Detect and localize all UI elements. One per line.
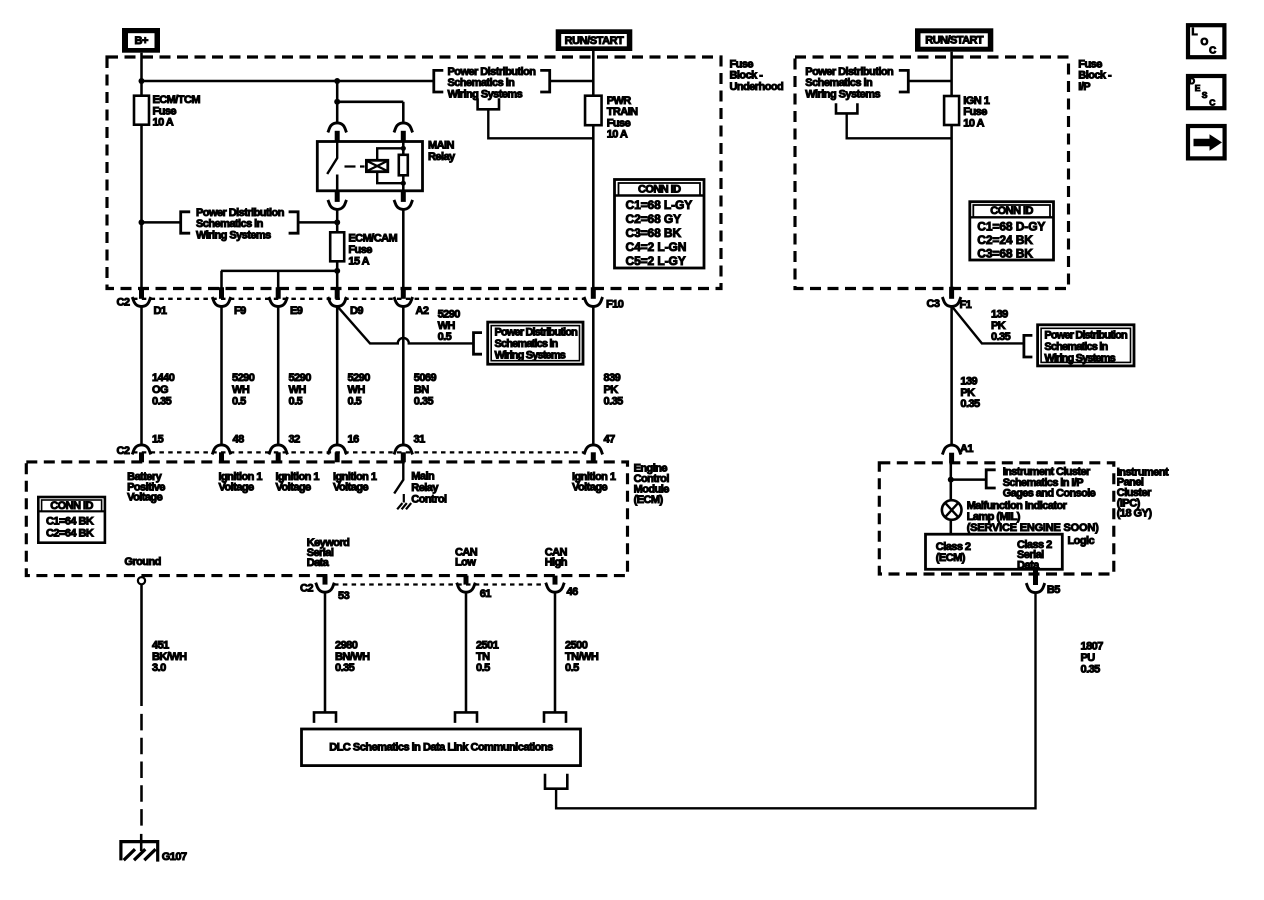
lamp MIL indicator	[942, 500, 962, 520]
wire into ground symbol	[140, 834, 143, 851]
svg-text:(SERVICE ENGINE SOON): (SERVICE ENGINE SOON)	[967, 522, 1099, 534]
svg-text:A1: A1	[960, 443, 973, 455]
wire relay feed down	[336, 81, 339, 123]
svg-text:Wiring Systems: Wiring Systems	[495, 349, 566, 361]
pin fuse block terminal D1	[139, 287, 144, 299]
svg-text:A2: A2	[416, 305, 429, 317]
svg-text:L: L	[1192, 27, 1198, 38]
svg-text:Data: Data	[307, 557, 330, 569]
svg-text:DLC Schematics in Data Link Co: DLC Schematics in Data Link Communicatio…	[329, 742, 553, 754]
svg-text:Power Distribution: Power Distribution	[1044, 330, 1128, 342]
connector D1 (female)	[132, 297, 151, 307]
resistor relay suppression	[399, 155, 408, 176]
connector ECM pin 61 (female)	[457, 583, 476, 593]
svg-text:Control: Control	[411, 493, 447, 505]
connector relay 86 (female)	[394, 200, 413, 210]
svg-text:Power Distribution: Power Distribution	[448, 66, 537, 78]
svg-text:B+: B+	[135, 35, 148, 47]
svg-text:5069: 5069	[414, 372, 437, 384]
svg-text:O: O	[1201, 37, 1209, 48]
connector DLC output (male half)	[545, 774, 567, 789]
svg-text:3.0: 3.0	[152, 662, 166, 674]
fuse ECM/TCM 10A	[134, 94, 200, 129]
wire u-bracket to main	[847, 113, 952, 138]
wire coil frame	[377, 148, 403, 183]
connector ECM pin 48 (female)	[212, 445, 231, 455]
pin fuse block terminal A2	[401, 287, 406, 299]
table CONN ID ECM	[38, 497, 105, 543]
svg-text:Schematics in: Schematics in	[805, 77, 873, 89]
svg-text:(ECM): (ECM)	[634, 494, 664, 506]
svg-text:Fuse: Fuse	[348, 244, 372, 256]
node junction to power distribution reference	[139, 219, 145, 225]
icon DESC legend	[1188, 76, 1224, 108]
svg-text:WH: WH	[232, 384, 250, 396]
svg-text:Voltage: Voltage	[127, 492, 162, 504]
pin ECM terminal 48	[219, 452, 224, 462]
wire harness vertical	[402, 307, 405, 446]
reference Power Distribution Schematics (boxed, IPC branch)	[1024, 325, 1134, 366]
svg-text:5290: 5290	[232, 372, 255, 384]
reference Power Distribution Schematics (I/P)	[805, 66, 908, 101]
wire harness vertical	[336, 307, 339, 446]
svg-text:BN: BN	[414, 384, 429, 396]
node junction IPC reference	[948, 477, 954, 483]
svg-text:Wiring Systems: Wiring Systems	[805, 89, 880, 101]
svg-text:CONN ID: CONN ID	[50, 500, 93, 512]
fuse block underhood (dashed)	[107, 57, 721, 289]
svg-text:C4=2 L-GN: C4=2 L-GN	[626, 240, 687, 254]
svg-text:0.5: 0.5	[348, 395, 362, 407]
svg-text:G107: G107	[162, 851, 187, 863]
svg-text:451: 451	[152, 639, 169, 651]
svg-text:PU: PU	[1081, 652, 1096, 664]
svg-text:ECM/CAM: ECM/CAM	[348, 233, 397, 245]
svg-text:Logic: Logic	[1068, 535, 1095, 547]
svg-text:PK: PK	[604, 384, 619, 396]
pin fuse block terminal F10	[591, 287, 596, 299]
svg-text:C2=68 GY: C2=68 GY	[626, 212, 682, 226]
svg-text:D1: D1	[154, 305, 167, 317]
svg-text:Fuse: Fuse	[607, 117, 631, 129]
wire B+ vertical feed	[140, 53, 143, 96]
wire ECM/TCM fuse to connector D1	[140, 125, 143, 288]
svg-text:ECM/TCM: ECM/TCM	[153, 94, 201, 106]
connector ECM pin 47 (female)	[584, 445, 603, 455]
wire ignition branch horizontal	[221, 270, 337, 273]
svg-text:0.5: 0.5	[232, 395, 246, 407]
transistor driver main relay control (switch)	[394, 462, 403, 493]
svg-text:Fuse: Fuse	[153, 105, 177, 117]
svg-text:Low: Low	[455, 557, 476, 569]
svg-text:(ECM): (ECM)	[936, 552, 966, 564]
reference Power Distribution Schematics (top mid)	[434, 66, 550, 101]
svg-text:5290: 5290	[289, 372, 312, 384]
reference additional (u-bracket)	[478, 98, 499, 109]
svg-text:BK/WH: BK/WH	[152, 651, 187, 663]
wire fuse to D9	[336, 261, 339, 288]
svg-text:C: C	[1209, 46, 1216, 57]
table CONN ID I/P	[970, 202, 1054, 261]
wire ground 451 solid part	[140, 584, 143, 706]
node junction ignition branch	[334, 268, 340, 274]
svg-text:Underhood: Underhood	[730, 81, 784, 93]
svg-text:S: S	[1202, 90, 1208, 100]
connector C3/F1 (female)	[942, 297, 961, 307]
wire harness vertical	[140, 307, 143, 446]
svg-text:PK: PK	[960, 387, 975, 399]
pin ECM terminal 15	[139, 452, 144, 462]
svg-text:(18 GY): (18 GY)	[1117, 508, 1153, 520]
svg-text:0.35: 0.35	[991, 331, 1011, 343]
svg-text:F9: F9	[234, 305, 246, 317]
node RUN/START ignition feed (underhood)	[556, 29, 633, 51]
reference Power Distribution Schematics (left)	[181, 207, 298, 242]
icon arrow legend	[1188, 126, 1225, 158]
pin relay terminal 86	[401, 191, 406, 202]
wire class 2 serial data run	[556, 593, 1035, 809]
wire harness vertical	[220, 307, 223, 446]
svg-text:C3=68 BK: C3=68 BK	[626, 226, 682, 240]
svg-text:16: 16	[348, 433, 360, 445]
connector DLC (male half)	[544, 712, 566, 723]
pin fuse block I/P terminal F1	[949, 287, 954, 299]
pin relay terminal	[335, 131, 340, 142]
svg-text:WH: WH	[438, 320, 456, 332]
svg-text:839: 839	[604, 372, 621, 384]
wire reference to relay branch	[298, 221, 337, 224]
connector IPC pin B5 (female)	[1026, 583, 1045, 593]
connector ECM pin 32 (female)	[269, 445, 288, 455]
svg-text:31: 31	[414, 433, 426, 445]
wire ECM connector row (dotted)	[133, 451, 584, 453]
connector DLC (male half)	[455, 712, 477, 723]
svg-text:BN/WH: BN/WH	[335, 651, 370, 663]
node B+ battery terminal box	[122, 28, 160, 53]
connector ECM pin 46 (female)	[546, 583, 565, 593]
icon LOC legend	[1188, 25, 1224, 57]
svg-text:C1=68 L-GY: C1=68 L-GY	[626, 198, 693, 212]
wire B+ horizontal bus	[142, 80, 434, 83]
svg-text:0.5: 0.5	[476, 662, 490, 674]
svg-text:Wiring Systems: Wiring Systems	[448, 89, 523, 101]
pin fuse block terminal F9	[219, 287, 224, 299]
svg-text:C3: C3	[927, 298, 940, 310]
table CONN ID underhood	[615, 180, 705, 269]
wire IGN1 fuse to C3/F1	[950, 125, 953, 288]
svg-text:0.35: 0.35	[152, 395, 172, 407]
connector DLC (male half)	[314, 712, 336, 723]
svg-text:Relay: Relay	[411, 482, 439, 494]
svg-text:RUN/START: RUN/START	[925, 35, 984, 47]
wire relay right leg	[402, 142, 405, 191]
wire A1 down to MIL	[950, 463, 953, 501]
svg-text:0.35: 0.35	[335, 662, 355, 674]
svg-text:C2: C2	[117, 445, 130, 457]
wire C3/F1 down to A1	[950, 306, 953, 445]
svg-text:0.35: 0.35	[604, 395, 624, 407]
ECM U1 Engine Control Module (dashed)	[26, 462, 627, 576]
wire connector row (dotted)	[133, 298, 584, 300]
pin ECM terminal 46	[553, 576, 558, 585]
svg-text:TRAIN: TRAIN	[607, 106, 638, 118]
svg-text:C2: C2	[300, 583, 313, 595]
svg-text:Schematics in: Schematics in	[1044, 341, 1108, 353]
wire branch to F9	[220, 271, 223, 288]
svg-text:CONN ID: CONN ID	[638, 183, 681, 195]
wire relay 87 down	[336, 209, 339, 232]
svg-text:MAIN: MAIN	[428, 140, 455, 152]
svg-text:5290: 5290	[438, 309, 461, 321]
svg-text:C5=2 L-GY: C5=2 L-GY	[626, 254, 686, 268]
svg-text:Schematics in: Schematics in	[448, 77, 516, 89]
pin relay terminal 87	[335, 191, 340, 202]
svg-text:Gages and Console: Gages and Console	[1003, 488, 1096, 500]
svg-text:15 A: 15 A	[348, 255, 369, 267]
svg-text:0.35: 0.35	[414, 395, 434, 407]
svg-text:0.35: 0.35	[960, 398, 980, 410]
connector ECM pin 15 (female)	[132, 445, 151, 455]
svg-text:TN: TN	[476, 651, 490, 663]
wire relay coil feed down	[402, 102, 405, 123]
svg-text:C2=24 BK: C2=24 BK	[977, 233, 1033, 247]
svg-text:1440: 1440	[152, 372, 175, 384]
svg-text:Lamp (MIL): Lamp (MIL)	[967, 511, 1021, 523]
connector ECM pin 53 (female)	[316, 583, 335, 593]
relay coil	[366, 160, 387, 171]
pin ECM terminal 32	[276, 452, 281, 462]
wire harness vertical	[592, 307, 595, 446]
svg-text:CONN ID: CONN ID	[990, 205, 1033, 217]
svg-text:48: 48	[233, 433, 245, 445]
svg-text:C3=68 BK: C3=68 BK	[977, 246, 1033, 260]
wire to IPC reference bracket	[951, 478, 986, 481]
wire ground 451 dashed part	[140, 714, 143, 830]
svg-text:TN/WH: TN/WH	[565, 651, 599, 663]
connector relay 87 (female)	[328, 200, 347, 210]
svg-text:Power Distribution: Power Distribution	[495, 327, 579, 339]
svg-text:Ground: Ground	[124, 556, 160, 568]
wire serial data vertical	[554, 592, 557, 713]
svg-text:WH: WH	[348, 384, 366, 396]
wire to reference bracket	[142, 221, 181, 224]
relay switch contact	[327, 142, 337, 175]
svg-text:0.35: 0.35	[1081, 663, 1101, 675]
pin IPC terminal A1	[949, 453, 954, 463]
wire u-bracket to main	[488, 109, 593, 138]
pin ECM terminal 61	[464, 576, 469, 585]
wire ECM bottom connector row (dotted)	[334, 583, 547, 585]
connector ECM pin 16 (female)	[328, 445, 347, 455]
svg-text:Schematics in: Schematics in	[196, 218, 264, 230]
svg-text:10 A: 10 A	[607, 129, 628, 141]
wire reference to main	[908, 80, 951, 83]
svg-text:Main: Main	[411, 470, 435, 482]
svg-text:Voltage: Voltage	[219, 481, 254, 493]
svg-text:High: High	[545, 557, 568, 569]
svg-text:Power Distribution: Power Distribution	[805, 66, 894, 78]
connector F10 (female)	[584, 297, 603, 307]
pin ECM terminal 31	[401, 452, 406, 462]
svg-text:Relay: Relay	[428, 151, 456, 163]
svg-text:Wiring Systems: Wiring Systems	[196, 230, 271, 242]
IPC Instrument Panel Cluster (dashed)	[879, 463, 1114, 574]
svg-text:Voltage: Voltage	[333, 481, 368, 493]
pin fuse block terminal E9	[276, 287, 281, 299]
svg-text:B5: B5	[1047, 584, 1060, 596]
pin relay terminal	[401, 131, 406, 142]
reference Power Distribution Schematics (boxed, D9 branch)	[474, 322, 584, 364]
fuse PWR TRAIN 10A	[585, 95, 638, 141]
connector relay pin 30 (female)	[328, 123, 347, 132]
svg-text:C1=64 BK: C1=64 BK	[46, 516, 94, 528]
fuse IGN 1 10A	[944, 95, 990, 130]
svg-text:Voltage: Voltage	[572, 481, 607, 493]
ground internal ECM driver	[397, 503, 411, 509]
wire reference to main	[550, 80, 594, 83]
svg-text:15: 15	[152, 433, 164, 445]
svg-text:Wiring Systems: Wiring Systems	[1044, 352, 1115, 364]
svg-text:61: 61	[480, 588, 492, 600]
connector relay pin 85 (female)	[394, 123, 413, 132]
svg-text:32: 32	[289, 433, 301, 445]
relay actuator dashed link	[345, 165, 365, 167]
svg-text:D9: D9	[350, 305, 363, 317]
node junction ECM/CAM feed	[334, 219, 340, 225]
svg-text:139: 139	[991, 309, 1008, 321]
wire RUN/START down	[950, 52, 953, 96]
svg-text:E9: E9	[290, 305, 303, 317]
svg-text:C1=68 D-GY: C1=68 D-GY	[977, 219, 1045, 233]
node ground pin circle	[138, 577, 145, 584]
wire branch to E9	[277, 271, 280, 288]
connector ECM pin 31 (female)	[394, 445, 413, 455]
ground G107	[121, 842, 187, 863]
svg-text:139: 139	[960, 376, 977, 388]
svg-text:53: 53	[338, 590, 350, 602]
node junction B+ bus	[139, 78, 145, 84]
wire relay top horizontal	[337, 101, 403, 104]
svg-text:5290: 5290	[348, 372, 371, 384]
wire branch diagonal to reference	[952, 307, 1024, 344]
pin ECM terminal 16	[335, 452, 340, 462]
fuse block I/P (dashed)	[795, 57, 1069, 289]
svg-text:Fuse: Fuse	[1078, 58, 1102, 70]
svg-text:Voltage: Voltage	[276, 481, 311, 493]
svg-text:10 A: 10 A	[963, 117, 984, 129]
connector A2 (female)	[394, 297, 413, 307]
svg-text:PK: PK	[991, 320, 1006, 332]
svg-text:RUN/START: RUN/START	[565, 35, 624, 47]
wire serial data vertical	[465, 592, 468, 713]
svg-text:10 A: 10 A	[153, 117, 174, 129]
svg-text:2980: 2980	[335, 639, 358, 651]
svg-text:1807: 1807	[1081, 641, 1104, 653]
wire relay 86 down to A2	[402, 209, 405, 288]
svg-text:0.5: 0.5	[565, 662, 579, 674]
pin fuse block terminal D9	[335, 287, 340, 299]
wire harness vertical	[277, 307, 280, 446]
module Class 2 (ECM) logic box	[926, 534, 1063, 571]
svg-text:PWR: PWR	[607, 95, 632, 107]
svg-text:Schematics in: Schematics in	[495, 338, 559, 350]
svg-text:F10: F10	[606, 299, 624, 311]
connector D9 (female)	[328, 297, 347, 307]
svg-text:WH: WH	[289, 384, 307, 396]
node junction relay top	[334, 99, 340, 105]
svg-text:Block -: Block -	[730, 70, 764, 82]
svg-text:2501: 2501	[476, 639, 499, 651]
pin ECM terminal 47	[591, 452, 596, 462]
svg-text:C2=64 BK: C2=64 BK	[46, 527, 94, 539]
svg-text:C: C	[1209, 97, 1215, 107]
pin IPC terminal B5	[1033, 569, 1038, 585]
svg-text:Fuse: Fuse	[730, 58, 754, 70]
DLC reference box	[302, 729, 581, 766]
svg-text:C2: C2	[117, 297, 130, 309]
svg-text:E: E	[1195, 83, 1201, 93]
wire RUN/START down	[592, 51, 595, 96]
svg-text:F1: F1	[960, 299, 972, 311]
svg-text:I/P: I/P	[1078, 81, 1090, 93]
connector F9 (female)	[212, 297, 231, 307]
reference additional (u-bracket)	[836, 103, 857, 113]
wire D9 branch diagonal with hop over A2	[338, 307, 474, 344]
node RUN/START ignition feed (I/P)	[915, 28, 993, 51]
node junction relay feed	[334, 78, 340, 84]
svg-text:47: 47	[604, 433, 616, 445]
svg-text:0.5: 0.5	[438, 331, 452, 343]
relay MAIN Relay	[317, 140, 456, 191]
wire serial data vertical	[324, 592, 327, 713]
svg-text:Power Distribution: Power Distribution	[196, 207, 285, 219]
wire PWR TRAIN to F10	[592, 125, 595, 288]
svg-text:Block -: Block -	[1078, 70, 1112, 82]
connector IPC pin A1 (female)	[942, 445, 961, 455]
svg-text:2500: 2500	[565, 639, 588, 651]
wire MIL to Class 2 box	[950, 520, 953, 534]
svg-text:Fuse: Fuse	[963, 106, 987, 118]
fuse ECM/CAM 15A	[330, 232, 397, 267]
svg-text:OG: OG	[152, 384, 168, 396]
svg-text:46: 46	[567, 586, 579, 598]
pin ECM terminal 53	[323, 576, 328, 585]
svg-text:IGN 1: IGN 1	[963, 95, 989, 107]
connector E9 (female)	[269, 297, 288, 307]
reference Instrument Cluster Schematics	[986, 466, 1095, 499]
svg-text:0.5: 0.5	[289, 395, 303, 407]
